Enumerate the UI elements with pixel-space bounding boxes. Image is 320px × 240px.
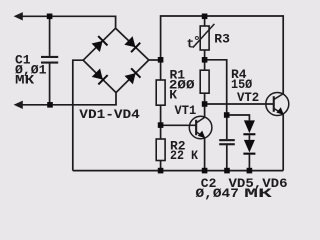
wire R3 top stub	[204, 16, 206, 26]
wire top-left AC line	[22, 16, 116, 28]
svg-text:МК: МК	[15, 72, 34, 87]
wire VT2 emitter to bottom rail	[282, 114, 284, 170]
wire VT1 base	[161, 124, 196, 126]
wire R3 to R4	[204, 50, 206, 70]
node B C2-VD5	[224, 112, 230, 118]
wire R1 to base node	[160, 105, 162, 139]
diode VD5	[243, 120, 255, 135]
svg-text:°: °	[193, 34, 201, 49]
bridge diamond VD1-VD4	[83, 28, 149, 92]
wire VT1 emitter to bottom rail	[204, 138, 206, 171]
wire R2 to bottom rail	[160, 161, 162, 171]
wire VT1 collector to VT2 base	[205, 103, 274, 105]
diode VD3 bridge bottom-left	[91, 68, 108, 85]
node C2 bottom	[224, 168, 230, 174]
transistor VT1	[189, 116, 212, 139]
diode VD6	[243, 140, 255, 155]
wire R1 branch vertical	[160, 60, 162, 80]
resistor R4	[200, 70, 209, 93]
capacitor C2	[219, 139, 235, 145]
wire VT1 collector	[204, 104, 206, 117]
wire bottom rail	[73, 170, 283, 172]
wire C2 bottom lead	[226, 145, 228, 170]
wire node A to VD5 C2 branch	[205, 60, 227, 115]
capacitor C1	[41, 56, 58, 64]
diode VD1 bridge top-left	[91, 35, 108, 52]
node A R3-R4	[202, 57, 208, 63]
arrow AC terminal bottom	[14, 101, 23, 109]
diode VD2 bridge top-right	[124, 36, 141, 53]
svg-text:VT1: VT1	[175, 103, 197, 118]
svg-text:VD1-VD4: VD1-VD4	[79, 107, 140, 122]
thermistor R3	[193, 24, 215, 50]
resistor R1	[156, 80, 165, 105]
node VT1 collector	[202, 101, 208, 107]
node C1 top	[47, 14, 53, 20]
node R2 bottom	[158, 168, 164, 174]
svg-text:R3: R3	[214, 32, 230, 47]
node VT1 base	[158, 122, 164, 128]
node R3 top	[202, 14, 208, 20]
wire VD6 to bottom rail	[248, 155, 250, 171]
resistor R2	[156, 139, 165, 161]
transistor VT2	[266, 93, 289, 116]
node junction dots	[47, 14, 252, 174]
wire bridge left stub to minus rail	[73, 60, 83, 170]
diode VD4 bridge bottom-right	[124, 68, 141, 85]
wire node B to VD5 top	[227, 115, 250, 120]
svg-text:Ø,Ø47: Ø,Ø47	[196, 186, 239, 201]
wire C1 bottom lead	[49, 64, 51, 105]
wire bottom-left AC line	[22, 93, 117, 105]
node bridge plus	[158, 57, 164, 63]
wire C1 top lead	[49, 16, 51, 56]
node VD6 bottom	[247, 168, 253, 174]
wire R4 to VT1 collector node	[204, 93, 206, 104]
svg-text:VT2: VT2	[237, 90, 259, 105]
svg-text:МК: МК	[244, 186, 272, 201]
node C1 bottom	[47, 102, 53, 108]
svg-text:22 К: 22 К	[170, 148, 198, 163]
wire bridge right stub	[149, 59, 161, 61]
node VT1 emitter bottom	[202, 168, 208, 174]
wire VD5 to VD6	[248, 135, 250, 140]
wire C2 top lead	[226, 115, 228, 139]
wire plus rail up and top-right	[161, 16, 284, 94]
svg-text:К: К	[169, 87, 177, 102]
arrow AC terminal top	[14, 12, 23, 20]
